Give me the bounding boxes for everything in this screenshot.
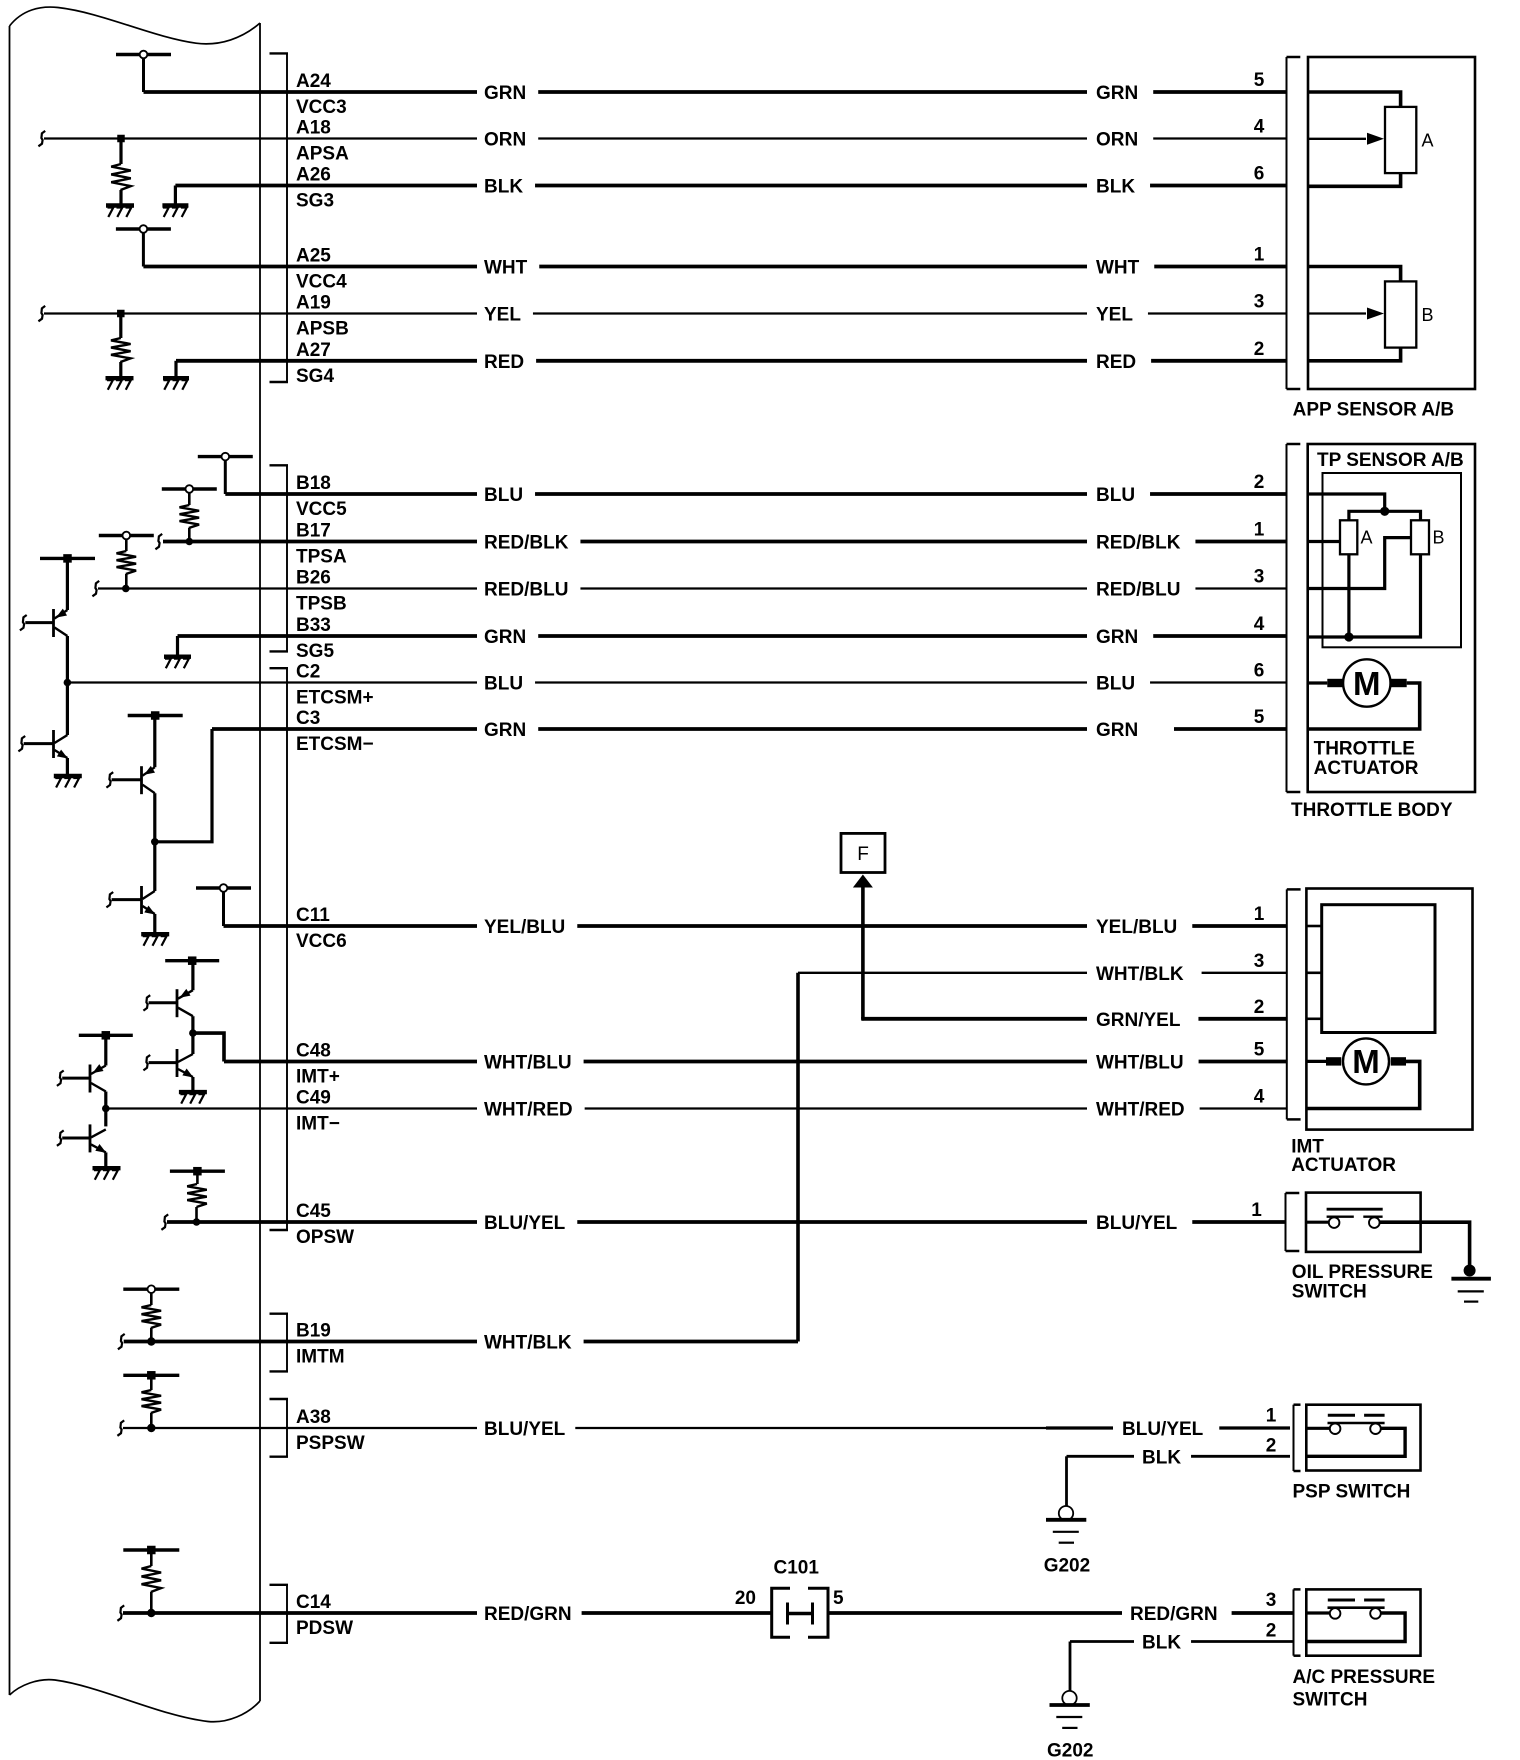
squiggle Q1 [20,615,27,630]
svg-text:YEL: YEL [484,305,521,326]
caption THROTTLE ACTUATOR [1314,739,1419,780]
PSP switch box [1306,1405,1420,1471]
caption APP SENSOR A/B [1293,400,1455,421]
resistor R-C45 [187,1171,207,1226]
label G202 second [1047,1740,1093,1760]
svg-text:BLK: BLK [484,177,523,198]
squiggle A18 [38,131,45,146]
squiggle Q3 [106,772,113,787]
squiggle Q8 [57,1130,64,1145]
wire Q1-C2 [64,636,72,735]
ground Q6 [179,1092,207,1104]
caption A/C PRESSURE SWITCH [1293,1667,1436,1711]
svg-text:APP SENSOR A/B: APP SENSOR A/B [1293,400,1455,421]
svg-text:THROTTLE: THROTTLE [1314,739,1415,760]
squiggle B19 [118,1334,125,1349]
throttle pin 4 [1254,614,1265,635]
node VCC4 [116,225,171,266]
resistor R-A18 [111,139,131,206]
svg-text:RED/BLU: RED/BLU [484,580,568,601]
node B17 [162,485,217,545]
svg-text:THROTTLE BODY: THROTTLE BODY [1291,800,1453,821]
transistor Q4 [112,886,156,915]
svg-text:RED/BLK: RED/BLK [484,533,569,554]
wire B17 row [163,533,1287,554]
PSP pin 2 [1266,1436,1277,1457]
svg-text:5: 5 [833,1588,844,1609]
squiggle C45 [161,1214,168,1229]
wire A27 row [176,352,1287,373]
svg-text:G202: G202 [1044,1555,1090,1576]
svg-text:VCC6: VCC6 [296,931,347,952]
svg-text:BLU/YEL: BLU/YEL [1122,1419,1204,1440]
APP sensor connector bracket [1287,57,1301,389]
motor M1 wiring [1308,683,1420,729]
svg-text:TPSB: TPSB [296,594,347,615]
svg-text:BLU/YEL: BLU/YEL [1096,1213,1178,1234]
PSP switch loop [1306,1428,1405,1456]
transistor Q6 [149,1049,194,1078]
wire A24 row [144,83,1287,104]
squiggle Q7 [57,1071,64,1086]
svg-text:OIL PRESSURE: OIL PRESSURE [1292,1262,1433,1283]
wire C45 row [167,1213,1286,1234]
throttle pin 2 [1254,472,1265,493]
svg-text:M: M [1353,665,1381,702]
node B19 [123,1285,179,1345]
F reference box [841,833,885,872]
APP pin 1 [1254,245,1265,266]
wire C14 row [123,1604,1293,1625]
pin label C49/IMT− [296,1088,340,1135]
IMT stub pin1 [1306,925,1321,928]
wire WHT/BLK riser [796,973,800,1342]
svg-text:RED/GRN: RED/GRN [484,1604,572,1625]
svg-text:B: B [1422,305,1434,325]
svg-text:4: 4 [1254,1087,1265,1108]
wire Q2-gnd [66,758,69,776]
wire GRN/YEL riser corner [861,1017,864,1021]
svg-text:3: 3 [1266,1590,1277,1611]
svg-text:GRN: GRN [484,83,526,104]
caption PSP SWITCH [1293,1482,1411,1503]
wire C3 row [212,720,1287,741]
IMT pin 4 [1254,1087,1265,1108]
svg-text:ETCSM−: ETCSM− [296,734,374,755]
svg-text:2: 2 [1254,339,1265,360]
svg-text:2: 2 [1266,1436,1277,1457]
ground Q4 [141,934,169,946]
ground SG3 [162,186,188,218]
svg-text:RED/BLK: RED/BLK [1096,533,1181,554]
PSP switch connector bracket [1294,1405,1301,1471]
caption TP SENSOR A/B [1317,450,1464,471]
pin label A27/SG4 [296,340,334,387]
svg-text:A25: A25 [296,246,331,267]
IMT pin 2 [1254,997,1265,1018]
svg-text:A38: A38 [296,1407,331,1428]
wire A19 row [44,305,1287,326]
TP wiring pin1 [1308,540,1340,543]
wire C2 row [67,674,1286,695]
resistor R-A19 [111,314,131,379]
svg-text:BLU: BLU [1096,674,1135,695]
svg-text:20: 20 [735,1588,756,1609]
connector C101 symbol [772,1588,828,1637]
svg-text:B18: B18 [296,473,331,494]
TP pot A [1340,520,1373,554]
svg-text:2: 2 [1254,472,1265,493]
transistor Q3 [112,716,155,795]
supply bar C45 [170,1167,225,1176]
svg-text:4: 4 [1254,614,1265,635]
A/C pressure switch box [1306,1589,1420,1655]
wire Q7-C49 [102,1092,110,1127]
svg-text:ETCSM+: ETCSM+ [296,688,374,709]
svg-text:B19: B19 [296,1321,331,1342]
svg-text:1: 1 [1254,520,1265,541]
wire B26 row [98,580,1287,601]
wire A38 row [123,1419,1290,1440]
svg-text:RED: RED [1096,352,1136,373]
throttle body connector bracket [1287,444,1301,792]
svg-text:VCC4: VCC4 [296,272,347,293]
node VCC3 [116,51,171,92]
throttle body box [1308,444,1475,792]
APP pin 3 [1254,292,1265,313]
wire ACBLK row [1070,1633,1293,1654]
svg-text:TPSA: TPSA [296,547,347,568]
svg-text:6: 6 [1254,661,1265,682]
APP pin 6 [1254,164,1265,185]
supply bar Q7 [79,1031,133,1040]
IMT pin 1 [1254,904,1265,925]
throttle pin 5 [1254,707,1265,728]
TP wiring pin4 [1308,554,1421,641]
pin label B18/VCC5 [296,473,347,520]
junction A18 [117,135,125,143]
pin label B17/TPSA [296,521,347,568]
wire PSP BLK ground riser [1065,1456,1068,1506]
squiggle A38 [117,1420,124,1435]
svg-text:SWITCH: SWITCH [1292,1282,1367,1303]
transistor Q7 [62,1035,106,1092]
A/C pressure switch connector bracket [1294,1589,1301,1655]
svg-text:C11: C11 [296,905,330,926]
svg-text:WHT: WHT [484,258,528,279]
svg-text:APSB: APSB [296,319,349,340]
svg-text:ORN: ORN [1096,130,1138,151]
svg-text:BLU: BLU [484,485,523,506]
svg-text:A27: A27 [296,340,331,361]
pin label C48/IMT+ [296,1041,340,1088]
svg-text:BLU/YEL: BLU/YEL [484,1419,566,1440]
wire A18 row [44,130,1287,151]
svg-text:A/C PRESSURE: A/C PRESSURE [1293,1667,1436,1688]
A/C switch contacts [1306,1600,1384,1619]
svg-text:ACTUATOR: ACTUATOR [1291,1155,1396,1176]
svg-text:2: 2 [1254,997,1265,1018]
ground Q8 [93,1168,121,1180]
svg-text:RED/BLU: RED/BLU [1096,580,1180,601]
svg-text:C48: C48 [296,1041,331,1062]
label C101 pin 20 [735,1588,756,1609]
caption THROTTLE BODY [1291,800,1453,821]
svg-text:PSP SWITCH: PSP SWITCH [1293,1482,1411,1503]
pin label A38/PSPSW [296,1407,365,1454]
pin label A25/VCC4 [296,246,347,293]
svg-text:ACTUATOR: ACTUATOR [1314,758,1419,779]
svg-text:BLK: BLK [1142,1633,1181,1654]
svg-text:WHT/RED: WHT/RED [484,1100,573,1121]
ECM connector bracket 3 [270,668,289,1230]
oil pressure switch connector bracket [1286,1193,1300,1251]
squiggle B17 [155,534,162,549]
svg-text:SG5: SG5 [296,641,334,662]
wire A/C BLK ground riser [1069,1642,1072,1692]
svg-text:3: 3 [1254,951,1265,972]
pin label A26/SG3 [296,165,334,212]
supply bar Q3 [128,711,183,720]
svg-text:F: F [857,844,869,865]
svg-text:C49: C49 [296,1088,331,1109]
transistor Q1 [25,558,67,637]
svg-text:IMT+: IMT+ [296,1067,340,1088]
squiggle Q5 [143,995,150,1010]
svg-text:1: 1 [1254,904,1265,925]
svg-text:C2: C2 [296,662,320,683]
TP sensor inner box [1323,473,1462,647]
svg-text:C14: C14 [296,1592,331,1613]
squiggle Q6 [143,1055,150,1070]
squiggle B26 [92,581,99,596]
svg-text:6: 6 [1254,164,1265,185]
IMT inner block [1322,905,1435,1033]
IMT pin 3 [1254,951,1265,972]
throttle pin 6 [1254,661,1265,682]
svg-text:A: A [1422,130,1434,150]
node B26 [99,532,154,593]
svg-text:A: A [1361,528,1373,548]
wire A25 row [143,258,1286,279]
oil switch ground wire [1380,1222,1470,1271]
svg-text:C45: C45 [296,1201,331,1222]
svg-text:OPSW: OPSW [296,1227,354,1248]
oil pressure switch contacts [1306,1209,1383,1228]
motor M2 wiring [1306,1061,1419,1108]
arrow to F [853,875,873,1019]
svg-text:C101: C101 [774,1558,820,1579]
svg-text:PDSW: PDSW [296,1618,353,1639]
svg-text:ORN: ORN [484,130,526,151]
ECM connector bracket 2 [270,465,289,651]
wire C48 row [224,1053,1287,1074]
pin label C3/ETCSM− [296,708,374,755]
pin label C2/ETCSM+ [296,662,374,709]
pin label B19/IMTM [296,1321,345,1368]
wire PSPBLK row [1067,1447,1291,1468]
caption OIL PRESSURE SWITCH [1292,1262,1433,1303]
svg-text:PSPSW: PSPSW [296,1433,365,1454]
svg-text:WHT/BLU: WHT/BLU [484,1053,572,1074]
ground G-oil [1451,1265,1491,1302]
IMT stub pin2 [1306,1017,1321,1020]
supply bar Q5 [165,956,219,965]
wire P3 row [798,964,1287,985]
junction A19 [117,310,125,318]
svg-text:B33: B33 [296,615,331,636]
squiggle Q2 [18,736,25,751]
pin label B33/SG5 [296,615,334,662]
svg-text:BLK: BLK [1096,177,1135,198]
ground G202 first [1046,1506,1086,1543]
pin label C11/VCC6 [296,905,347,952]
svg-text:5: 5 [1254,707,1265,728]
svg-text:GRN: GRN [1096,627,1138,648]
wire Q8-gnd [104,1152,107,1168]
svg-text:BLU: BLU [1096,485,1135,506]
svg-text:1: 1 [1266,1406,1277,1427]
svg-text:A19: A19 [296,293,331,314]
svg-text:G202: G202 [1047,1740,1093,1760]
APP pot A [1308,92,1434,186]
ECM connector bracket 6 [270,1585,289,1643]
svg-text:1: 1 [1251,1200,1262,1221]
TP wiring pin2 [1308,494,1421,520]
svg-text:IMT−: IMT− [296,1114,340,1135]
PSP pin 1 [1266,1406,1277,1427]
APP pin 4 [1254,117,1265,138]
svg-text:1: 1 [1254,245,1265,266]
wire B19 row [124,1333,798,1354]
throttle pin 3 [1254,567,1265,588]
wire A26 row [175,177,1286,198]
svg-text:GRN: GRN [1096,83,1138,104]
supply bar Q1 [40,554,95,563]
svg-text:YEL/BLU: YEL/BLU [484,917,565,938]
svg-text:A26: A26 [296,165,331,186]
svg-text:A18: A18 [296,118,331,139]
svg-text:A24: A24 [296,71,331,92]
ground SG5 [164,636,191,668]
svg-text:WHT/BLK: WHT/BLK [484,1333,572,1354]
A/C switch loop [1306,1613,1405,1642]
svg-text:WHT: WHT [1096,258,1140,279]
APP pin 2 [1254,339,1265,360]
svg-text:B26: B26 [296,568,331,589]
APP pin 5 [1254,70,1265,91]
pin label A19/APSB [296,293,349,340]
svg-text:SG4: SG4 [296,366,334,387]
ground SG4 [163,361,189,390]
svg-text:VCC3: VCC3 [296,97,347,118]
pin label A18/APSA [296,118,349,165]
PSP switch contacts [1306,1415,1384,1434]
pin label A24/VCC3 [296,71,347,118]
IMT actuator connector bracket [1287,889,1301,1119]
oil pressure switch box [1306,1193,1421,1252]
svg-text:RED: RED [484,352,524,373]
wire Q6-gnd [191,1077,194,1092]
svg-text:3: 3 [1254,567,1265,588]
node C14 [123,1546,179,1617]
throttle pin 1 [1254,520,1265,541]
label C101 [774,1558,820,1579]
svg-text:5: 5 [1254,1040,1265,1061]
transistor Q8 [62,1124,106,1153]
svg-text:RED/GRN: RED/GRN [1130,1604,1218,1625]
squiggle C14 [117,1605,124,1620]
oil pin 1 [1251,1200,1262,1221]
node VCC5 [198,453,253,494]
caption IMT ACTUATOR [1291,1136,1396,1175]
ground Q2 [54,776,82,788]
IMT stub pin3 [1306,971,1321,974]
svg-text:3: 3 [1254,292,1265,313]
svg-text:YEL/BLU: YEL/BLU [1096,917,1177,938]
wire Q5-C48 [189,1016,224,1061]
svg-text:GRN: GRN [484,720,526,741]
wire B33 row [178,627,1287,648]
wire B18 row [225,485,1286,506]
ECM connector bracket 1 [270,53,289,382]
squiggle Q4 [106,892,113,907]
pin label C45/OPSW [296,1201,354,1248]
svg-text:5: 5 [1254,70,1265,91]
svg-text:BLU: BLU [484,674,523,695]
svg-text:GRN: GRN [484,627,526,648]
motor M1 throttle actuator [1327,659,1406,706]
ground G202 second [1050,1691,1090,1728]
node A38 [123,1371,179,1432]
pin label C14/PDSW [296,1592,353,1639]
TP wiring pin3 [1308,538,1411,589]
APP pot B [1308,267,1434,361]
squiggle A19 [38,306,45,321]
wire C49 row [106,1100,1287,1121]
motor M2 IMT [1326,1038,1406,1084]
ground A19 [106,378,134,390]
svg-text:TP SENSOR A/B: TP SENSOR A/B [1317,450,1464,471]
svg-text:GRN/YEL: GRN/YEL [1096,1010,1181,1031]
svg-text:WHT/BLK: WHT/BLK [1096,964,1184,985]
label C101 pin 5 [833,1588,844,1609]
A/C pin 2 [1266,1621,1277,1642]
ECM connector bracket 4 [270,1314,289,1372]
transistor Q2 [24,730,68,759]
wire P2 row [862,1010,1287,1031]
svg-text:APSA: APSA [296,144,349,165]
IMT actuator box [1306,889,1472,1130]
TP pot B [1411,520,1445,554]
svg-text:2: 2 [1266,1621,1277,1642]
svg-text:M: M [1352,1043,1380,1080]
svg-text:GRN: GRN [1096,720,1138,741]
svg-text:WHT/RED: WHT/RED [1096,1100,1185,1121]
wire C11 row [224,917,1287,938]
ECM connector bracket 5 [270,1399,289,1457]
transistor Q5 [149,961,193,1018]
svg-text:4: 4 [1254,117,1265,138]
svg-text:BLK: BLK [1142,1447,1181,1468]
node VCC6 [196,884,251,926]
wire Q4-gnd [153,914,156,934]
svg-text:C3: C3 [296,708,320,729]
A/C pin 3 [1266,1590,1277,1611]
ECM control module outline (torn edge) [10,7,261,1722]
svg-text:BLU/YEL: BLU/YEL [484,1213,566,1234]
svg-text:SG3: SG3 [296,191,334,212]
